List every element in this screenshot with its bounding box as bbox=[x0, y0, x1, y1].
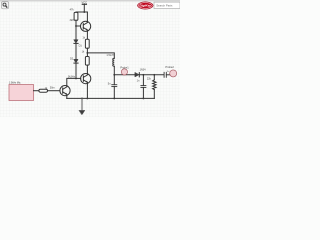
svg-text:1.5mH: 1.5mH bbox=[106, 54, 114, 57]
wire R5 to Q3 base bbox=[48, 90, 60, 92]
svg-text:1.5kHz Mic: 1.5kHz Mic bbox=[9, 82, 22, 85]
svg-text:DigiKey: DigiKey bbox=[140, 4, 152, 8]
node Q2 emitter rail junction bbox=[86, 97, 88, 99]
wire C3 to probe bbox=[166, 74, 170, 76]
wire C2 branch bbox=[142, 75, 144, 86]
wire C2 to rail bbox=[142, 87, 144, 98]
wire Q1 collector bbox=[86, 12, 88, 21]
wire top rail bbox=[76, 11, 87, 13]
wire C1 top bbox=[113, 75, 115, 85]
node top junction bbox=[83, 11, 85, 13]
wire D2 to Q2 base node bbox=[75, 63, 77, 78]
svg-text:50m: 50m bbox=[50, 86, 55, 89]
inductor L1 bbox=[113, 58, 115, 66]
wire R1 to base node bbox=[75, 20, 77, 39]
svg-text:1N34: 1N34 bbox=[140, 68, 147, 71]
wire base Q1 bbox=[76, 25, 81, 27]
wire C1 bottom bbox=[113, 87, 115, 99]
node tank junction bbox=[113, 74, 115, 76]
svg-text:Probe2: Probe2 bbox=[165, 65, 174, 69]
diode D1 bbox=[74, 40, 83, 48]
wire tap to L1 bbox=[87, 53, 114, 58]
node C2 junction bbox=[142, 74, 144, 76]
wire Q3 emitter to ground rail bbox=[66, 96, 68, 99]
wire R2 to R3 bbox=[86, 48, 88, 56]
wire D1 to D2 bbox=[75, 43, 77, 59]
resistor R3 bbox=[82, 51, 90, 66]
Digi-Key logo bbox=[137, 2, 153, 9]
node R4 junction bbox=[153, 74, 155, 76]
resistor R2 bbox=[82, 37, 89, 48]
capacitor C3 output bbox=[164, 71, 170, 77]
wire L1 to detector node bbox=[113, 66, 115, 75]
power VCC V1 bbox=[82, 0, 88, 12]
node ground tap bbox=[81, 97, 83, 99]
svg-text:3k9: 3k9 bbox=[69, 19, 74, 22]
wire base Q2 bbox=[76, 77, 81, 79]
capacitor C2 bbox=[137, 79, 146, 87]
capacitor C1 bbox=[108, 82, 117, 86]
toolbar strip top bbox=[0, 0, 180, 2]
wire Q3 collector to base node Q2 bbox=[67, 78, 76, 85]
search parts box bbox=[154, 2, 180, 8]
diode D2 bbox=[70, 57, 78, 63]
transistor Q1 bbox=[81, 21, 91, 31]
canvas background grid bbox=[0, 1, 180, 117]
diode D3 bbox=[135, 68, 146, 77]
node C1 rail junction bbox=[113, 97, 115, 99]
transistor Q2 bbox=[81, 74, 91, 84]
wire R4 branch bbox=[153, 75, 155, 80]
wire R4 to rail corner bbox=[153, 90, 155, 99]
wire Q1 emitter bbox=[86, 31, 88, 39]
wire D3 to output cap bbox=[139, 74, 163, 76]
resistor R4 bbox=[147, 78, 156, 90]
resistor R1 bbox=[69, 8, 77, 22]
wire R1 top bbox=[75, 11, 77, 13]
wire ground rail bbox=[67, 97, 155, 99]
probe Probe1 bbox=[120, 66, 129, 75]
svg-text:Search Parts: Search Parts bbox=[156, 4, 173, 8]
node emitter tap junction bbox=[86, 52, 88, 54]
probe Probe2 bbox=[165, 65, 176, 77]
source box MIC V2 bbox=[9, 82, 34, 101]
node C2 rail junction bbox=[142, 97, 144, 99]
node Q1 base junction bbox=[75, 25, 77, 27]
transistor Q3 bbox=[60, 86, 70, 96]
node Q2 base junction bbox=[75, 77, 77, 79]
resistor R5 bbox=[39, 86, 55, 92]
tool button top-left bbox=[1, 2, 8, 9]
wire Q2 emitter to rail bbox=[86, 84, 88, 99]
wire tank to D3 bbox=[114, 74, 135, 76]
ground GND bbox=[79, 98, 85, 114]
wire R3 to Q2 collector bbox=[86, 65, 88, 73]
wire mic to R5 bbox=[34, 90, 39, 92]
